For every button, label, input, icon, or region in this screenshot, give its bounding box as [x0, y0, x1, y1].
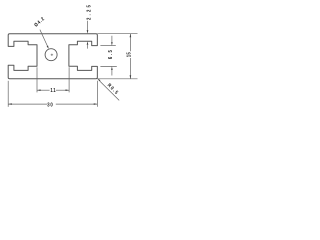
extension line right mouth bottom lip	[100, 65, 116, 67]
extension line profile left	[7, 81, 9, 107]
profile outline 30x15 extrusion cross-section	[8, 34, 97, 79]
center mark	[51, 54, 53, 56]
extension line top edge (right)	[97, 33, 137, 35]
dim 2.25 upper arrow	[87, 21, 89, 34]
leader R0.5	[97, 79, 119, 101]
extension line web left	[36, 67, 38, 92]
dim 2.25 lower arrow	[87, 41, 89, 48]
extension line right mouth top lip	[100, 45, 115, 47]
dim 30 line	[8, 103, 97, 105]
svg-text:2.25: 2.25	[86, 3, 91, 20]
leader to circle	[40, 30, 49, 49]
extension line profile right	[96, 81, 98, 107]
dim 6.5 upper arrow	[111, 36, 113, 46]
svg-text:R0.5: R0.5	[107, 82, 121, 96]
extension line web right	[68, 67, 70, 92]
dim 15 line	[130, 34, 132, 79]
svg-text:Ø4.2: Ø4.2	[33, 16, 46, 28]
center hole circle	[45, 49, 57, 61]
svg-text:30: 30	[47, 102, 53, 107]
dim 11 line	[37, 89, 69, 91]
svg-text:6.5: 6.5	[108, 49, 113, 59]
svg-text:11: 11	[50, 87, 56, 92]
extension line bottom edge (right)	[97, 78, 137, 80]
dim 6.5 lower arrow	[111, 66, 113, 75]
svg-text:15: 15	[126, 52, 131, 57]
